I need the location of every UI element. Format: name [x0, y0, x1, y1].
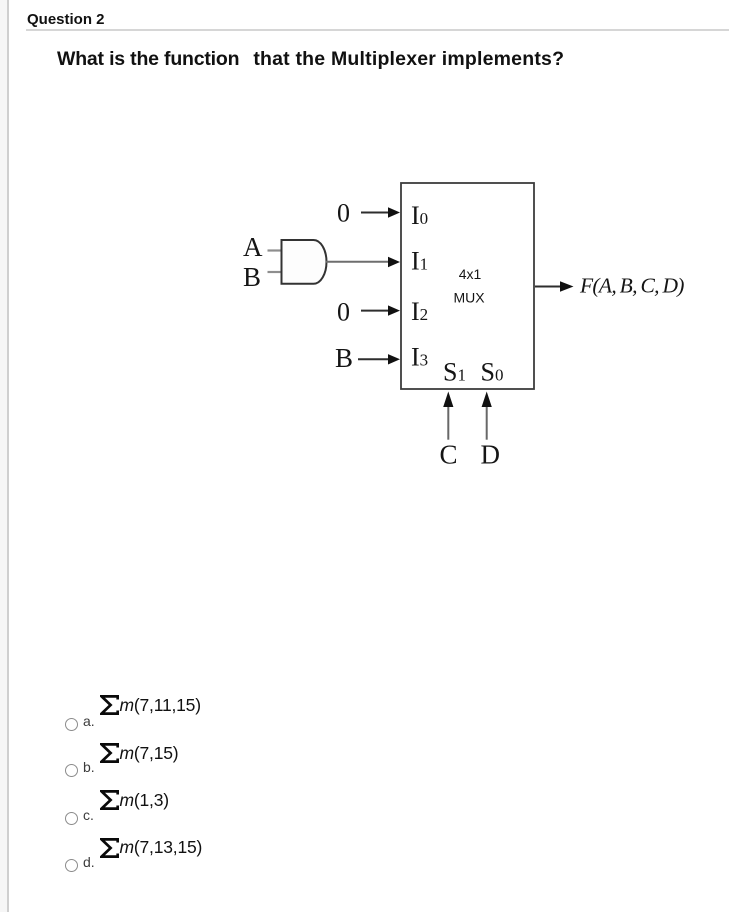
svg-text:A: A [243, 232, 263, 262]
and gate U2 [282, 240, 327, 284]
label D [481, 440, 501, 470]
left gutter strip [0, 0, 9, 912]
label F(A, B, C, D) [579, 274, 684, 298]
svg-text:B: B [335, 343, 353, 373]
label C [440, 440, 458, 470]
svg-text:0: 0 [337, 298, 350, 327]
wire input A stub [268, 249, 281, 251]
pin label S1 [443, 358, 466, 387]
header underline [26, 29, 729, 31]
wire 0 to I2 [361, 305, 400, 315]
wire 0 to I0 [361, 207, 400, 217]
svg-text:0: 0 [337, 199, 350, 228]
pin label S0 [481, 358, 504, 387]
pin label I1 [411, 247, 428, 276]
wire and-gate output to I1 [326, 257, 400, 267]
wire select S0 from D [482, 392, 492, 440]
label B input I3 [335, 343, 353, 373]
svg-text:B: B [243, 262, 261, 292]
svg-text:F(A, B, C, D): F(A, B, C, D) [579, 274, 684, 298]
answer option c [65, 812, 78, 825]
question text [57, 46, 564, 72]
mux U1 body [401, 183, 534, 389]
svg-text:D: D [481, 440, 501, 470]
svg-text:4x1: 4x1 [459, 266, 482, 282]
wire B to I3 [358, 354, 400, 364]
wire mux output [535, 281, 574, 291]
label 0 input I2 [337, 298, 350, 327]
question header [27, 10, 105, 30]
answer option a [65, 718, 78, 731]
svg-text:MUX: MUX [453, 290, 485, 306]
label 4x1 [459, 266, 482, 282]
wire select S1 from C [443, 392, 453, 440]
pin label I2 [411, 297, 428, 326]
pin label I0 [411, 201, 428, 230]
label B [243, 262, 261, 292]
label MUX [453, 290, 485, 306]
pin label I3 [411, 343, 428, 372]
answer option d [65, 859, 78, 872]
label 0 input I0 [337, 199, 350, 228]
wire input B stub [268, 271, 281, 273]
label A [243, 232, 263, 262]
svg-text:C: C [440, 440, 458, 470]
answer option b [65, 764, 78, 777]
